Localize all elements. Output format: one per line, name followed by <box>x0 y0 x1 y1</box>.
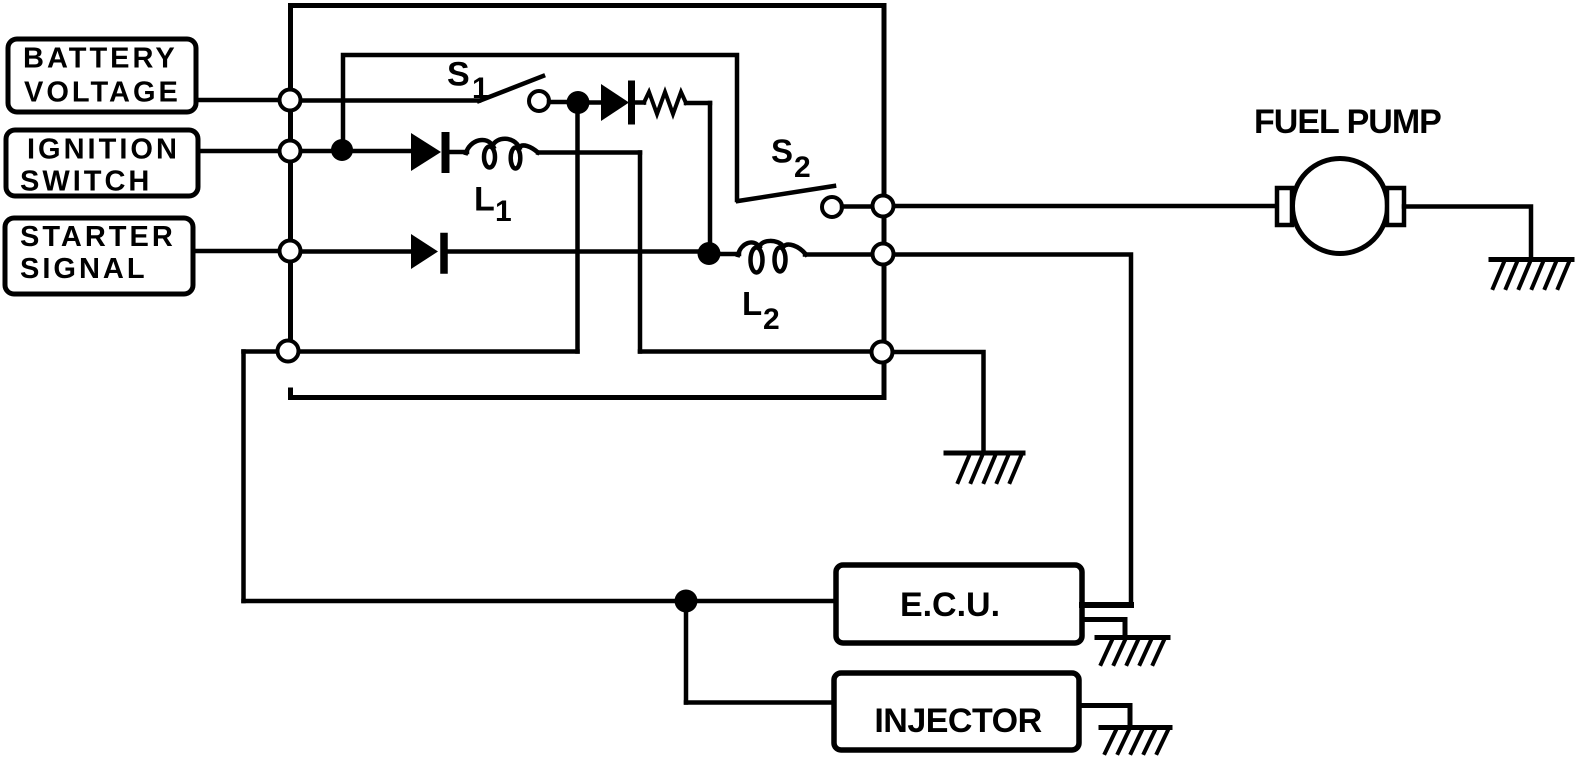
svg-text:INJECTOR: INJECTOR <box>874 702 1041 740</box>
wire node B to coil L2 <box>709 252 739 257</box>
wire L1 output drop <box>638 153 643 352</box>
junction dot B (L2 input) <box>698 242 721 265</box>
box E.C.U. <box>836 565 1082 643</box>
svg-text:2: 2 <box>794 151 811 184</box>
diode D1 <box>601 84 632 121</box>
inductor L2 <box>738 241 806 273</box>
switch S1 blade <box>479 76 543 101</box>
box IGNITION SWITCH <box>6 130 198 198</box>
svg-text:L: L <box>742 285 762 322</box>
wire R1 to corner <box>686 101 710 106</box>
svg-text:2: 2 <box>763 303 780 336</box>
box INJECTOR <box>834 673 1079 750</box>
wire starter box to left rail <box>193 249 290 254</box>
wire battery row to S1 <box>290 98 479 103</box>
svg-text:S: S <box>771 133 793 170</box>
junction dot (ignition / top rail) <box>331 139 353 161</box>
svg-text:STARTER: STARTER <box>20 221 176 253</box>
switch S1 contact circle <box>529 91 549 111</box>
wire ignition row to diode D2 <box>290 149 411 154</box>
resistor R1 <box>644 92 686 114</box>
svg-text:S: S <box>447 56 470 94</box>
label FUEL PUMP <box>1254 103 1441 141</box>
svg-text:VOLTAGE: VOLTAGE <box>24 77 181 109</box>
wire mid-ground stub <box>883 352 984 453</box>
wire fuel pump to ground <box>1404 207 1531 260</box>
label S1 <box>447 56 489 106</box>
diode D2 <box>411 133 446 171</box>
label L2 <box>742 285 780 336</box>
wire long left drop to ECU row <box>241 352 246 602</box>
wire left rail dashed remnant (scan breaks) <box>287 363 294 384</box>
wire right rail node to fuel pump <box>883 204 1278 209</box>
wire L2 node to ECU drop <box>883 255 1131 606</box>
ground (ECU) <box>1097 638 1168 665</box>
node circle (left rail, bottom) <box>278 341 299 362</box>
box STARTER SIGNAL <box>5 218 193 294</box>
svg-text:1: 1 <box>472 72 489 105</box>
wire injector feed row <box>686 700 834 705</box>
wire ignition box to left rail <box>198 149 290 154</box>
wire outer loop rectangle <box>291 6 885 398</box>
wire ECU feed row <box>244 599 837 604</box>
switch S2 contact circle <box>822 197 842 217</box>
svg-text:E.C.U.: E.C.U. <box>900 586 1000 624</box>
junction dot A (S1 output) <box>567 91 590 114</box>
node circle (left rail, battery) <box>280 90 301 111</box>
svg-text:L: L <box>474 181 495 219</box>
wire L1 to corner <box>538 150 640 155</box>
wire node A drop <box>575 104 580 352</box>
wire injector stub to ground <box>1079 706 1130 728</box>
svg-text:SWITCH: SWITCH <box>20 166 152 198</box>
wire inner top rail (ignition feed to S2) <box>343 55 737 200</box>
inductor L1 <box>466 139 538 169</box>
ground (fuel pump) <box>1491 260 1572 289</box>
node circle (right rail, L2 row) <box>873 244 894 265</box>
wire starter row to diode D3 <box>290 249 411 254</box>
switch S2 blade <box>738 186 834 201</box>
wire R1 output drop to node B <box>708 103 713 252</box>
wire D1 to resistor R1 <box>635 100 644 105</box>
wire L2 to right rail <box>805 252 875 257</box>
wire S1 contact to node <box>549 100 570 105</box>
wire node A to diode D1 <box>578 100 601 105</box>
label S2 <box>771 133 811 185</box>
wire ECU lower stub to ground <box>1082 620 1125 638</box>
junction dot C (ECU/injector split) <box>675 590 698 613</box>
svg-text:SIGNAL: SIGNAL <box>20 253 148 285</box>
node circle (right rail, bottom row) <box>872 342 893 363</box>
svg-text:BATTERY: BATTERY <box>23 43 178 75</box>
motor fuel pump <box>1277 159 1404 254</box>
ground (injector) <box>1101 728 1170 754</box>
wire battery box to left rail <box>196 98 290 103</box>
wire injector drop <box>684 601 689 703</box>
svg-text:FUEL PUMP: FUEL PUMP <box>1254 103 1441 141</box>
wire D2 to coil L1 <box>450 150 467 155</box>
node circle (right rail, fuel pump row) <box>873 196 894 217</box>
wire bottom row left (node to S1-drop corner) <box>244 349 578 354</box>
wire ECU top stub <box>1082 602 1131 608</box>
node circle (left rail, starter) <box>280 241 301 262</box>
svg-text:1: 1 <box>495 195 512 228</box>
label L1 <box>474 181 512 229</box>
diode D3 <box>411 234 444 270</box>
node circle (left rail, ignition) <box>280 141 301 162</box>
svg-text:IGNITION: IGNITION <box>27 134 180 166</box>
wire D3 to node B <box>448 249 700 254</box>
box BATTERY VOLTAGE <box>8 39 196 112</box>
ground (center, below relay box) <box>946 453 1023 482</box>
wire S2 contact to right rail <box>842 204 875 209</box>
wire bottom row right (L1-drop corner to right rail) <box>640 349 883 354</box>
